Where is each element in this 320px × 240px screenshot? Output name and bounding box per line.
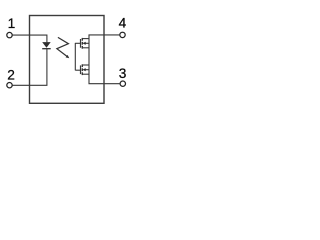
svg-text:3: 3 — [119, 66, 127, 81]
svg-text:2: 2 — [7, 68, 15, 83]
svg-text:1: 1 — [8, 16, 16, 31]
svg-text:4: 4 — [119, 16, 127, 31]
